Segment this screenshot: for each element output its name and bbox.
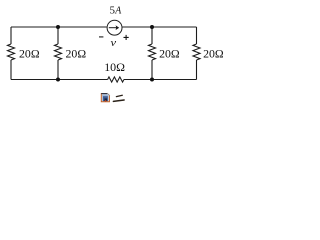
resistor R1 zigzag <box>8 44 15 60</box>
resistor R2 zigzag <box>55 44 62 60</box>
wire branch2 bottom <box>57 60 59 80</box>
wire top-right segment <box>122 26 196 28</box>
resistor R4 zigzag <box>193 44 200 60</box>
wire bottom-right segment <box>124 79 197 81</box>
polarity plus <box>124 35 129 40</box>
node dot bottom branch3 <box>150 78 154 82</box>
node dot top branch3 <box>150 25 154 29</box>
wire left rail bottom <box>10 60 12 80</box>
current source U1 circle <box>107 20 122 35</box>
wire branch3 bottom <box>151 60 153 80</box>
resistor R3 zigzag <box>149 44 156 60</box>
svg-text:20Ω: 20Ω <box>66 46 87 60</box>
wire left rail top <box>10 27 12 44</box>
svg-text:A: A <box>114 5 121 17</box>
svg-text:20Ω: 20Ω <box>203 46 224 60</box>
svg-text:10Ω: 10Ω <box>104 60 125 74</box>
wire top-left segment <box>11 26 107 28</box>
wire right rail bottom <box>196 60 198 80</box>
figure icon broken-image placeholder <box>101 93 110 102</box>
svg-text:20Ω: 20Ω <box>159 46 180 60</box>
current source arrow <box>109 25 119 30</box>
wire right rail top <box>196 27 198 44</box>
wire branch3 top <box>151 27 153 44</box>
node dot bottom branch2 <box>56 78 60 82</box>
resistor R5 zigzag 10ohm horizontal <box>108 77 124 82</box>
svg-text:v: v <box>111 37 117 49</box>
wire bottom-left segment <box>11 79 108 81</box>
polarity minus <box>99 36 103 37</box>
wire branch2 top <box>57 27 59 44</box>
label Chinese character er (two) <box>113 95 124 101</box>
svg-text:20Ω: 20Ω <box>19 46 40 60</box>
node dot top branch2 <box>56 25 60 29</box>
